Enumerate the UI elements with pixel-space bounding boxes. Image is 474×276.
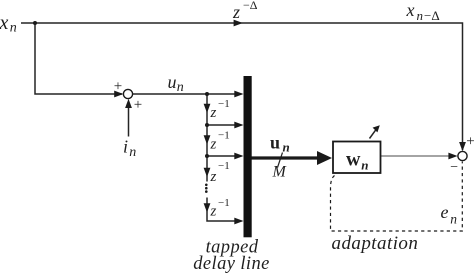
svg-text:z: z — [210, 137, 217, 153]
svg-text:n: n — [450, 212, 457, 227]
svg-text:z: z — [232, 2, 240, 22]
svg-text:−1: −1 — [218, 98, 230, 110]
svg-text:delay line: delay line — [193, 254, 269, 274]
svg-text:−1: −1 — [218, 160, 230, 172]
svg-text:n: n — [417, 8, 424, 23]
svg-text:−Δ: −Δ — [243, 0, 258, 12]
svg-text:+: + — [134, 97, 142, 113]
svg-text:−: − — [450, 160, 458, 175]
svg-text:x: x — [406, 0, 415, 20]
svg-text:n: n — [177, 80, 184, 95]
svg-text:z: z — [210, 204, 217, 220]
svg-text:−1: −1 — [218, 197, 230, 209]
svg-text:z: z — [210, 105, 217, 121]
svg-text:e: e — [441, 202, 449, 222]
svg-text:u: u — [270, 133, 280, 153]
svg-text:n: n — [129, 145, 136, 160]
svg-text:M: M — [272, 164, 288, 181]
svg-text:u: u — [168, 72, 177, 92]
svg-text:n: n — [283, 140, 290, 155]
svg-text:z: z — [210, 169, 217, 185]
svg-text:x: x — [0, 12, 9, 34]
svg-text:w: w — [346, 149, 361, 171]
svg-text:−Δ: −Δ — [424, 8, 440, 23]
svg-text:n: n — [361, 158, 368, 173]
svg-text:−1: −1 — [218, 130, 230, 142]
svg-text:+: + — [114, 78, 122, 94]
svg-text:+: + — [466, 133, 474, 149]
svg-text:n: n — [10, 21, 17, 36]
svg-text:i: i — [123, 137, 128, 157]
svg-text:adaptation: adaptation — [332, 233, 419, 254]
